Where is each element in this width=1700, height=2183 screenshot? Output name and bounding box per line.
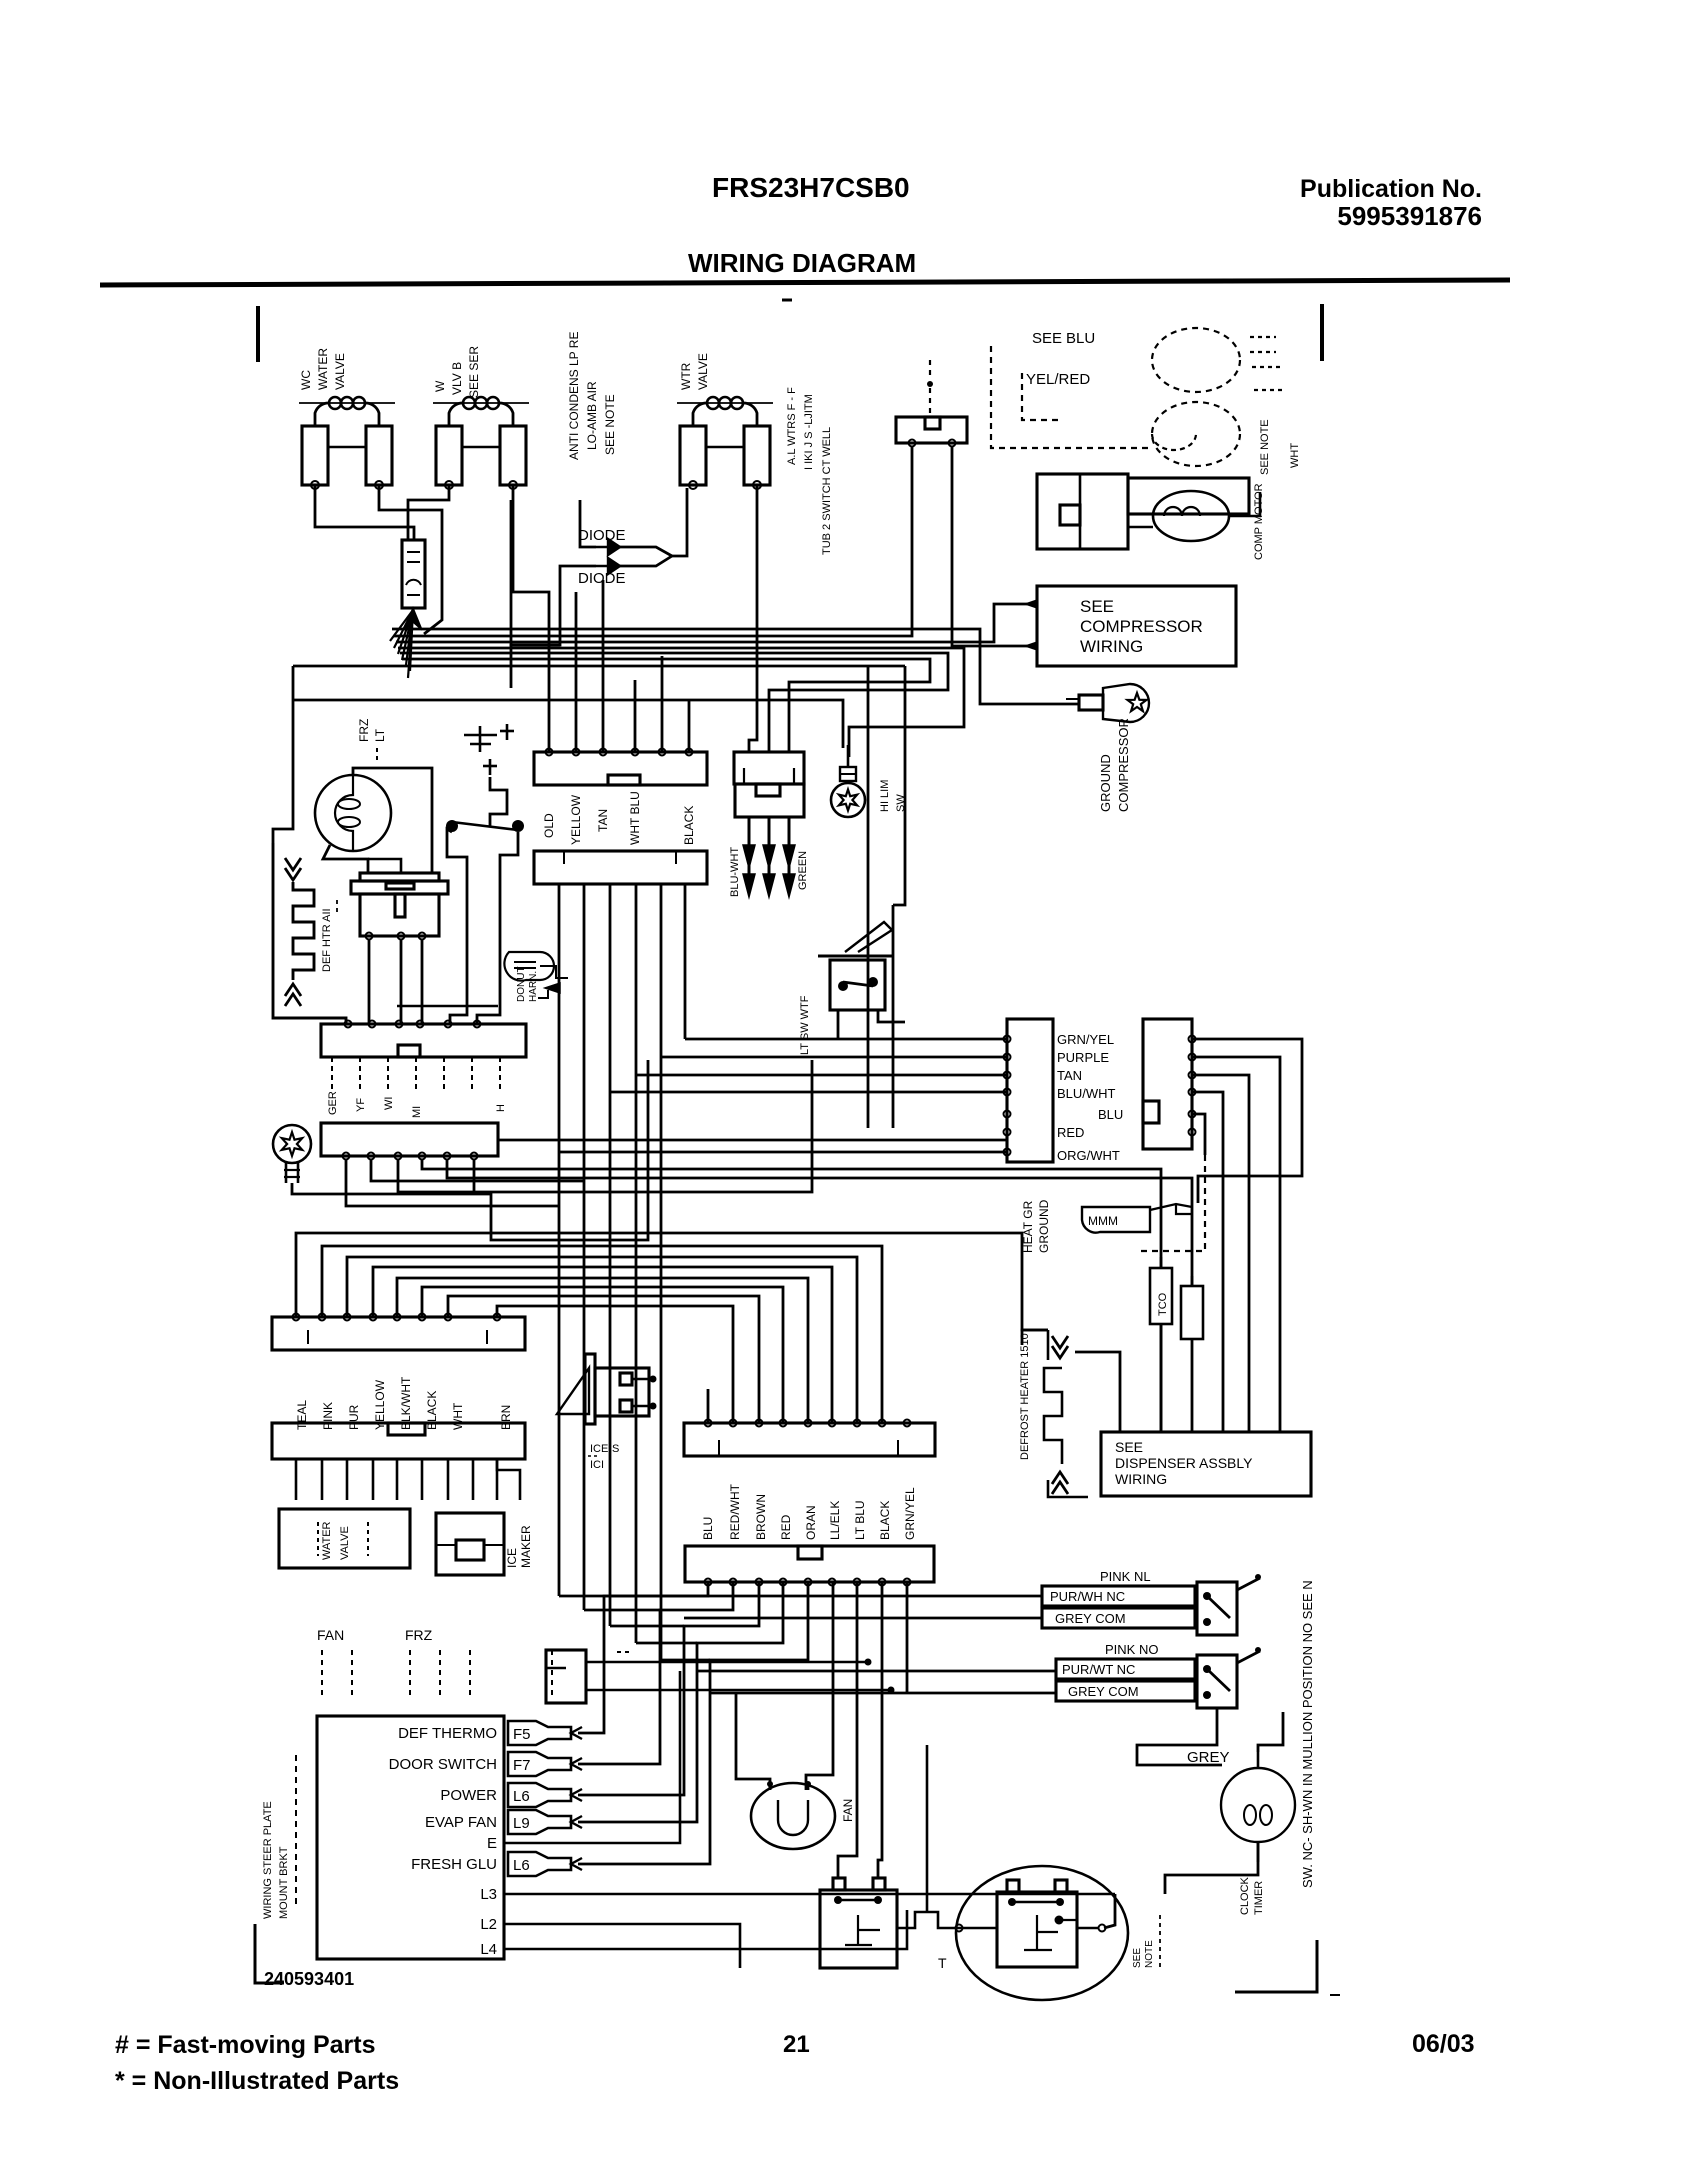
svg-text:PINK NO: PINK NO [1105, 1642, 1158, 1657]
signal buzzer [557, 1368, 589, 1414]
svg-text:DOOR SWITCH: DOOR SWITCH [389, 1756, 497, 1773]
svg-text:PUR/WH NC: PUR/WH NC [1050, 1589, 1125, 1604]
mullion switch 2 [1197, 1655, 1237, 1708]
staircase harness into connector F [322, 1246, 882, 1423]
connector H box [272, 1423, 525, 1459]
svg-text:PINK NL: PINK NL [1100, 1569, 1151, 1584]
connector C arrows [748, 817, 751, 852]
step wire to door switch [490, 777, 507, 826]
vertical wire 4 [635, 885, 638, 1643]
vertical wire 7 [892, 905, 895, 1128]
svg-text:BLU: BLU [701, 1517, 715, 1540]
thermostat connector [896, 417, 967, 443]
vertical wire 1 [558, 885, 561, 1596]
ladder wires from connector E [346, 1160, 560, 1206]
timer right pin feed [1104, 1894, 1115, 1928]
svg-text:GRN/YEL: GRN/YEL [1057, 1032, 1114, 1047]
cross wire a [498, 1139, 1007, 1142]
left margin tick [256, 306, 260, 362]
spade terminal L9 [508, 1810, 571, 1834]
svg-text:POWER: POWER [440, 1787, 497, 1804]
svg-text:SEE SER: SEE SER [467, 346, 481, 398]
lamp branch wire [368, 859, 401, 873]
svg-text:* = Non-Illustrated Parts: * = Non-Illustrated Parts [115, 2067, 399, 2095]
cross wire d [636, 1074, 1007, 1077]
svg-text:BLACK: BLACK [878, 1501, 892, 1540]
rocker lead 2 [878, 1010, 905, 1022]
svg-text:DEF THERMO: DEF THERMO [398, 1725, 497, 1742]
svg-text:TIMER: TIMER [1253, 1881, 1265, 1915]
diode D1 [596, 539, 620, 555]
see compressor wiring box [1037, 586, 1236, 666]
svg-text:MAKER: MAKER [519, 1525, 533, 1568]
defrost timer motor circle [956, 1866, 1128, 2000]
hi-limit screw lower [483, 765, 497, 768]
diode D2 [596, 558, 620, 574]
donut harness symbol [504, 952, 554, 981]
freezer bracket rail [273, 843, 346, 1024]
compressor run capacitor box [1128, 478, 1249, 514]
compressor motor [1153, 491, 1229, 541]
dashed wire loop lower [1152, 402, 1240, 466]
staircase wire to heater [296, 1233, 1048, 1330]
TCO fuse [1150, 1268, 1172, 1324]
svg-text:DEFROST HEATER 1510: DEFROST HEATER 1510 [1019, 1333, 1031, 1460]
relay to timer jog wire [897, 1912, 955, 1928]
connector D pin leads dashed [331, 1057, 333, 1092]
freezer light leads [353, 768, 432, 874]
bus wire 3 to compressor box [396, 604, 1034, 642]
thermal fuse 2 [1181, 1286, 1203, 1339]
connector E box [321, 1123, 498, 1156]
svg-text:T: T [938, 1955, 947, 1971]
svg-text:WI: WI [383, 1097, 395, 1110]
bus wire 2 to thermostat pin [394, 446, 912, 636]
svg-text:GROUND: GROUND [1098, 754, 1113, 812]
svg-text:RED: RED [779, 1514, 793, 1540]
harness fan-out [390, 610, 413, 641]
svg-text:HI LIM: HI LIM [879, 780, 891, 812]
cascade wire to evap fan [806, 1582, 833, 1790]
clock top lead [1258, 1712, 1283, 1752]
wire valve3 right lead down [749, 485, 757, 752]
connector B box [534, 851, 707, 884]
svg-text:BLACK: BLACK [682, 806, 696, 845]
svg-text:21: 21 [783, 2031, 810, 2058]
heater zigzag [1044, 1368, 1062, 1464]
svg-text:BLU/WHT: BLU/WHT [1057, 1086, 1116, 1101]
svg-text:HARN.: HARN. [528, 971, 539, 1002]
spade terminal F7 [508, 1752, 571, 1776]
svg-text:VALVE: VALVE [696, 353, 710, 390]
svg-text:Publication No.: Publication No. [1300, 175, 1482, 203]
switch 2 NC wire [697, 1670, 1056, 1673]
svg-text:F5: F5 [513, 1726, 531, 1743]
evap fan motor [751, 1783, 835, 1849]
svg-text:GREY: GREY [1187, 1749, 1230, 1766]
svg-text:WIRING DIAGRAM: WIRING DIAGRAM [688, 248, 916, 278]
see dispenser assembly wiring box [1101, 1432, 1311, 1496]
svg-text:WIRING: WIRING [1115, 1471, 1167, 1487]
door switch lead left [447, 829, 467, 890]
svg-text:GREY COM: GREY COM [1068, 1684, 1139, 1699]
water valve solenoid 3 [677, 402, 773, 404]
heater chevron bottom [285, 984, 301, 1006]
svg-text:SEE: SEE [1115, 1439, 1143, 1455]
bus wire 7 [398, 665, 905, 668]
defrost relay box [820, 1890, 897, 1968]
svg-text:H: H [495, 1104, 507, 1112]
water valve solenoid 2 [433, 402, 529, 404]
vertical wire 3 [609, 885, 612, 1626]
svg-text:ICI: ICI [590, 1459, 604, 1471]
svg-text:SW: SW [895, 794, 907, 812]
hi-limit screw symbols [464, 734, 497, 737]
svg-text:ANTI CONDENS LP RE: ANTI CONDENS LP RE [567, 332, 581, 460]
compressor ground lug [1079, 695, 1103, 710]
defrost timer stack [360, 873, 439, 881]
switch 2 COM junctions [906, 1690, 909, 1693]
grey wire to clock [1137, 1708, 1222, 1765]
svg-text:GER: GER [327, 1091, 339, 1115]
diode output wire to valve3 [672, 488, 687, 556]
svg-text:PINK: PINK [321, 1402, 335, 1430]
cross wire b [560, 1151, 1007, 1154]
thermostat dashed lead [929, 360, 931, 380]
board plain leads [504, 1671, 680, 1843]
svg-text:5995391876: 5995391876 [1337, 201, 1482, 231]
svg-text:S: S [612, 1443, 619, 1455]
connector F box [272, 1317, 525, 1350]
diode2 input wire [511, 566, 596, 688]
corner bracket bottom-right [1235, 1940, 1317, 1992]
svg-text:LL/ELK: LL/ELK [828, 1501, 842, 1540]
connector K box [1143, 1019, 1192, 1149]
svg-text:COMPRESSOR: COMPRESSOR [1116, 718, 1131, 812]
connector A entry wires [575, 592, 578, 752]
bus wire 4 to hi-limit bulb [398, 648, 964, 757]
svg-text:YEL/RED: YEL/RED [1026, 371, 1090, 388]
dispenser box feed wires [1160, 1324, 1163, 1432]
svg-text:GROUND: GROUND [1037, 1199, 1051, 1253]
svg-text:OLD: OLD [542, 813, 556, 838]
svg-text:DEF HTR AII: DEF HTR AII [321, 908, 333, 972]
cascade verticals join [559, 1595, 604, 1598]
clock bottom lead [1165, 1842, 1258, 1894]
svg-text:WHT BLU: WHT BLU [628, 791, 642, 845]
dashed jumper path [991, 346, 1150, 448]
svg-text:YELLOW: YELLOW [569, 794, 583, 845]
freezer door switch [446, 820, 458, 832]
svg-text:FRS23H7CSB0: FRS23H7CSB0 [712, 172, 910, 203]
svg-text:240593401: 240593401 [264, 1969, 354, 1989]
water valve assembly box [279, 1509, 410, 1568]
ice maker connector box [436, 1513, 504, 1575]
defrost heater zigzag [293, 882, 314, 980]
timer legs to connector [366, 933, 373, 940]
svg-text:LT: LT [373, 728, 387, 742]
bulb lead wire [292, 1060, 648, 1240]
vertical wire 6 [867, 666, 870, 1128]
svg-text:TCO: TCO [1157, 1292, 1169, 1316]
timer stem [395, 894, 405, 917]
svg-text:WC: WC [299, 370, 313, 390]
svg-text:BLU: BLU [1098, 1107, 1123, 1122]
svg-text:ICE: ICE [590, 1443, 608, 1455]
svg-text:TAN: TAN [1057, 1068, 1082, 1083]
rocker lead 1 [837, 1010, 840, 1039]
svg-text:L9: L9 [513, 1815, 530, 1832]
stray dash [782, 299, 792, 302]
connector A box [534, 752, 707, 785]
svg-text:HEAT GR: HEAT GR [1021, 1200, 1035, 1253]
switch 2 COM wire [710, 1692, 1056, 1695]
svg-text:FRZ: FRZ [357, 719, 371, 742]
svg-text:EVAP FAN: EVAP FAN [425, 1814, 497, 1831]
connector G lower box [685, 1546, 934, 1582]
ground clip [1082, 1207, 1150, 1233]
connector C box [734, 752, 804, 784]
heater top lead [1022, 1330, 1048, 1345]
wire valve1 left lead [315, 485, 414, 540]
small connector above board [546, 1650, 586, 1703]
cascade wire to F7 [578, 1582, 733, 1764]
water valve solenoid 1 [299, 402, 395, 404]
svg-text:YF: YF [355, 1098, 367, 1112]
vertical wire 7 feed [893, 666, 905, 905]
svg-text:GRN/YEL: GRN/YEL [903, 1487, 917, 1540]
svg-text:W: W [433, 380, 447, 392]
svg-text:RED: RED [1057, 1125, 1084, 1140]
svg-text:TUB 2 SWITCH CT WELL: TUB 2 SWITCH CT WELL [821, 427, 833, 555]
svg-text:BLU: BLU [1066, 330, 1095, 347]
svg-text:WIRING: WIRING [1080, 637, 1143, 656]
bus wire 5 to connector C [400, 653, 948, 752]
cascade wire to F5 [578, 1582, 708, 1733]
svg-text:A.L WTRS F - F: A.L WTRS F - F [786, 387, 798, 465]
hi-limit bulb symbol [840, 767, 856, 781]
svg-text:PUR: PUR [347, 1404, 361, 1430]
freezer light lamp [315, 775, 391, 851]
cascade wire to L6 [578, 1582, 759, 1795]
diode2 feed vertical [511, 500, 560, 645]
svg-text:LT BLU: LT BLU [853, 1500, 867, 1540]
svg-text:ORG/WHT: ORG/WHT [1057, 1148, 1120, 1163]
connector G upper box [684, 1423, 935, 1456]
G feed stub [707, 1389, 710, 1423]
svg-text:PURPLE: PURPLE [1057, 1050, 1109, 1065]
title underline rule [100, 280, 1510, 285]
defrost heater element [1047, 1330, 1050, 1360]
fan lead left up [736, 1693, 770, 1790]
svg-text:BLU-WHT: BLU-WHT [729, 847, 741, 897]
cross wire e [661, 1056, 1007, 1059]
compressor relay box [1037, 474, 1128, 549]
svg-text:06/03: 06/03 [1412, 2030, 1475, 2058]
heater chevron top [285, 858, 301, 880]
dashed wire loop upper [1152, 328, 1240, 392]
switch 1 NC wire [604, 1595, 1042, 1598]
connector K output wires [1192, 1039, 1302, 1203]
cascade wire to L6 fresh [578, 1582, 808, 1864]
svg-text:L6: L6 [513, 1857, 530, 1874]
freezer bulb [273, 1125, 311, 1163]
connector J pins [1004, 1036, 1011, 1043]
svg-text:WIRING STEER PLATE: WIRING STEER PLATE [262, 1801, 274, 1919]
svg-text:FAN: FAN [317, 1627, 344, 1643]
spade terminal L6 [508, 1783, 571, 1807]
svg-text:COMP MOTOR: COMP MOTOR [1253, 483, 1265, 560]
connector H pin wires [295, 1459, 298, 1500]
left rail wire [293, 665, 398, 668]
svg-text:WHT: WHT [451, 1402, 465, 1430]
svg-text:L3: L3 [480, 1886, 497, 1903]
harness arrowhead [404, 608, 422, 630]
cascade wire to L9 [578, 1582, 783, 1822]
svg-text:LT SW WTF: LT SW WTF [799, 995, 811, 1055]
svg-text:COMPRESSOR: COMPRESSOR [1080, 617, 1203, 636]
svg-text:RED/WHT: RED/WHT [728, 1483, 742, 1540]
svg-text:WHT: WHT [1289, 443, 1301, 468]
right margin tick [1320, 304, 1324, 361]
diode input wire up [580, 500, 596, 547]
spade terminal F5 [508, 1721, 571, 1745]
switch 1 COM wire [684, 1617, 1042, 1620]
wire valve2 right lead to connector A [513, 485, 549, 752]
connector K pins [1189, 1036, 1196, 1043]
connector D pins [345, 1021, 352, 1028]
svg-text:WTR: WTR [679, 362, 693, 390]
timer side leads [957, 1927, 997, 1930]
svg-text:TEAL: TEAL [295, 1400, 309, 1430]
cable sleeve B1 [402, 540, 425, 608]
wire valve1 right lead [379, 485, 442, 634]
svg-text:MMM: MMM [1088, 1214, 1118, 1228]
svg-text:SEE NOTE: SEE NOTE [603, 394, 617, 455]
svg-text:L6: L6 [513, 1788, 530, 1805]
dashed sense wire [1137, 1155, 1205, 1251]
timer cross wire [397, 1005, 498, 1008]
svg-text:NOTE: NOTE [1144, 1940, 1155, 1968]
svg-text:DISPENSER ASSBLY: DISPENSER ASSBLY [1115, 1455, 1253, 1471]
wire switch to pin [450, 890, 467, 1024]
spade terminal L6 [508, 1852, 571, 1876]
corner bracket bottom-left [255, 1924, 284, 1983]
vertical wire 5 [660, 885, 663, 1660]
svg-text:SEE: SEE [1032, 330, 1062, 347]
svg-text:SEE NOTE: SEE NOTE [1259, 419, 1271, 475]
svg-text:DIODE: DIODE [578, 527, 626, 544]
cascade wire to defrost relay [838, 1582, 857, 1878]
timer inner box [997, 1892, 1077, 1967]
cross wire c [610, 1091, 1007, 1094]
svg-text:WATER: WATER [321, 1521, 333, 1560]
svg-text:L4: L4 [480, 1941, 497, 1958]
ground clip fork [1150, 1204, 1192, 1214]
wire valve2 left lead [408, 485, 449, 540]
svg-text:# = Fast-moving Parts: # = Fast-moving Parts [115, 2031, 376, 2059]
svg-text:SEE: SEE [1080, 597, 1114, 616]
svg-text:FAN: FAN [841, 1799, 855, 1822]
timer feed vertical [926, 1745, 929, 1912]
donut lead [540, 966, 568, 978]
svg-text:I IKI J S -LJITM: I IKI J S -LJITM [803, 394, 815, 470]
door switch lead right [500, 832, 518, 890]
svg-text:GREY COM: GREY COM [1055, 1611, 1126, 1626]
hi-limit bulb feed wire [293, 700, 843, 748]
svg-text:SEE: SEE [1132, 1948, 1143, 1968]
cascade wire to timer [906, 1582, 909, 1690]
svg-text:PUR/WT NC: PUR/WT NC [1062, 1662, 1135, 1677]
mullion switch 1 [1197, 1582, 1237, 1635]
svg-text:MOUNT BRKT: MOUNT BRKT [278, 1846, 290, 1919]
thermostat lead 2 to compressor box [952, 446, 1037, 646]
svg-text:L2: L2 [480, 1916, 497, 1933]
svg-text:WATER: WATER [316, 348, 330, 390]
vertical wire 5b [684, 885, 687, 1039]
svg-text:TAN: TAN [596, 809, 610, 832]
svg-text:LO-AMB AIR: LO-AMB AIR [585, 381, 599, 450]
svg-text:VALVE: VALVE [333, 353, 347, 390]
svg-text:VALVE: VALVE [339, 1526, 351, 1560]
svg-text:BROWN: BROWN [754, 1494, 768, 1540]
svg-text:MI: MI [411, 1106, 423, 1118]
svg-text:DONUT: DONUT [516, 966, 527, 1002]
wire switch right to pin [477, 890, 500, 1024]
bus wire 6 to connector C [402, 659, 930, 752]
svg-text:E: E [487, 1835, 497, 1852]
svg-text:SW. NC- SH-WN IN MULLION POSIT: SW. NC- SH-WN IN MULLION POSITION NO SEE… [1300, 1580, 1315, 1888]
control board box [317, 1716, 504, 1959]
vertical wire 2 [583, 885, 586, 1610]
bus wire 1 to compressor ground lug [392, 629, 1079, 704]
connector D upper [321, 1024, 526, 1057]
svg-text:FRZ: FRZ [405, 1627, 433, 1643]
svg-text:VLV B: VLV B [450, 362, 464, 395]
connector J box [1007, 1019, 1053, 1162]
svg-text:ICE: ICE [505, 1548, 519, 1568]
rocker switch [818, 955, 892, 958]
svg-text:CLOCK: CLOCK [1239, 1876, 1251, 1915]
svg-text:BRN: BRN [499, 1405, 513, 1430]
svg-text:F7: F7 [513, 1757, 531, 1774]
cross wire f [685, 1038, 1007, 1041]
svg-text:GREEN: GREEN [797, 851, 809, 890]
svg-text:FRESH GLU: FRESH GLU [411, 1856, 497, 1873]
clock motor [1221, 1768, 1295, 1842]
svg-text:ORAN: ORAN [804, 1505, 818, 1540]
heater to dispenser wire [1075, 1352, 1120, 1432]
condenser fan dashes [1250, 336, 1276, 338]
